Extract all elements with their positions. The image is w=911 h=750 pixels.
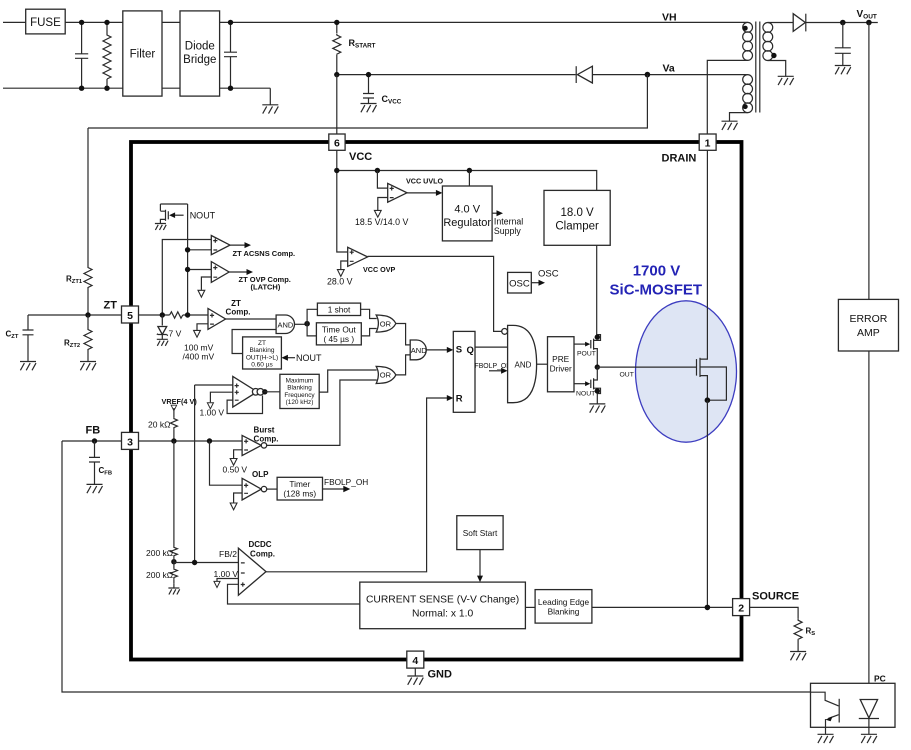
svg-text:SiC-MOSFET: SiC-MOSFET bbox=[610, 282, 703, 299]
resistor Rs bbox=[794, 619, 802, 640]
node dots AC resistor bbox=[104, 20, 109, 25]
resistor RZT2 bbox=[87, 315, 89, 327]
svg-text:1: 1 bbox=[705, 138, 711, 150]
transformer aux winding bbox=[746, 74, 747, 76]
pin 1 DRAIN bbox=[699, 134, 716, 150]
svg-text:Supply: Supply bbox=[494, 226, 521, 236]
wire Burst out to OR2 bbox=[267, 380, 377, 445]
wire body tie bbox=[700, 367, 726, 400]
svg-text:/400 mV: /400 mV bbox=[183, 352, 215, 362]
svg-text:OUT: OUT bbox=[620, 372, 634, 379]
zener 7V bbox=[161, 315, 163, 326]
wire DCDC out to latch R bbox=[266, 398, 449, 572]
wire ZT ACSNS + feed bbox=[162, 240, 211, 316]
svg-text:20 kΩ: 20 kΩ bbox=[148, 420, 170, 430]
wire OVP to AND gate bubble bbox=[368, 256, 502, 331]
svg-text:OUT(H->L): OUT(H->L) bbox=[246, 354, 278, 361]
wire ACSNS - feed bbox=[188, 249, 212, 251]
wire VCC charge line (Va to pin6) bbox=[337, 74, 747, 76]
svg-text:1.00 V: 1.00 V bbox=[214, 569, 239, 579]
block ERROR AMP bbox=[838, 299, 898, 351]
wire source down to pin2 line bbox=[706, 400, 708, 607]
internal supply arrow bbox=[492, 212, 499, 214]
svg-text:Soft Start: Soft Start bbox=[463, 528, 498, 538]
wire Va sense down-left to RZT1 bbox=[88, 75, 647, 265]
ground driver bbox=[596, 394, 598, 404]
svg-text:GND: GND bbox=[428, 669, 453, 681]
svg-text:Comp.: Comp. bbox=[250, 550, 275, 559]
gate AND1 bbox=[276, 315, 294, 334]
svg-text:2: 2 bbox=[738, 603, 744, 615]
wire bridge output top to transformer bbox=[220, 21, 747, 23]
diode output rectifier bbox=[793, 14, 805, 32]
transformer primary winding bbox=[746, 21, 747, 23]
comparator ZT ACSNS bbox=[211, 236, 230, 255]
ground aux winding bbox=[722, 121, 738, 130]
svg-text:18.0 V: 18.0 V bbox=[560, 207, 594, 219]
svg-text:PRE: PRE bbox=[552, 354, 570, 364]
svg-text:1.00 V: 1.00 V bbox=[200, 408, 225, 418]
svg-text:Normal: x 1.0: Normal: x 1.0 bbox=[412, 609, 474, 620]
optocoupler PC box bbox=[811, 683, 896, 727]
wire FB/2 to DCDC bbox=[174, 561, 239, 564]
capacitor CFB bbox=[89, 441, 100, 484]
wire bridge output bottom bbox=[220, 88, 271, 105]
wire OUT to gate bbox=[597, 366, 696, 368]
latch SR bbox=[453, 331, 475, 412]
svg-text:Driver: Driver bbox=[550, 364, 572, 374]
svg-text:ZT ACSNS Comp.: ZT ACSNS Comp. bbox=[233, 249, 296, 258]
diode aux charge (pointing left) bbox=[577, 66, 592, 83]
polarity dot secondary bbox=[771, 53, 776, 58]
svg-text:Leading Edge: Leading Edge bbox=[538, 597, 590, 607]
svg-text:NOUT: NOUT bbox=[190, 211, 216, 221]
wire VCC rail bbox=[337, 171, 597, 191]
svg-text:AND: AND bbox=[278, 321, 294, 330]
comparator VCC OVP bbox=[341, 261, 348, 269]
wire filter to bridge bbox=[162, 22, 180, 88]
wire DCDC + from current sense bbox=[228, 584, 360, 604]
gate OR2 bbox=[376, 366, 396, 383]
node Va junction bbox=[645, 72, 651, 78]
node output cap bbox=[840, 20, 846, 26]
svg-text:Filter: Filter bbox=[130, 49, 156, 61]
pin 3 FB bbox=[122, 432, 139, 449]
ground output cap bbox=[835, 66, 851, 75]
block CURRENT SENSE bbox=[360, 582, 526, 629]
resistor 200k lower bbox=[173, 558, 175, 569]
comparator VCC UVLO bbox=[377, 171, 387, 189]
gate AND2 bbox=[410, 340, 426, 360]
capacitor bulk after bridge bbox=[224, 22, 237, 88]
svg-text:ZT: ZT bbox=[104, 300, 118, 312]
svg-text:5: 5 bbox=[127, 310, 133, 322]
svg-text:VCC UVLO: VCC UVLO bbox=[406, 176, 444, 185]
wire ZT pin line left bbox=[28, 314, 122, 316]
svg-text:18.5 V/14.0 V: 18.5 V/14.0 V bbox=[355, 217, 408, 227]
wire ZT pin line right with filter squiggle bbox=[139, 314, 170, 316]
wire Q to AND3 bbox=[475, 346, 508, 348]
svg-text:Maximum: Maximum bbox=[286, 378, 314, 385]
resistor across AC line bbox=[106, 22, 108, 88]
svg-text:VREF(4 V): VREF(4 V) bbox=[162, 397, 198, 406]
wire FB line bbox=[62, 440, 242, 442]
phototransistor bbox=[811, 692, 839, 706]
wire pin6 to VCC rail bbox=[337, 150, 348, 252]
wire error amp to optocoupler LED bbox=[868, 351, 870, 700]
svg-text:ZT: ZT bbox=[258, 340, 266, 347]
svg-text:Burst: Burst bbox=[254, 426, 275, 435]
node dots AC cap bbox=[79, 20, 84, 25]
block maximum blanking frequency bbox=[280, 374, 319, 408]
svg-text:NOUT: NOUT bbox=[576, 390, 595, 397]
bubble AND3 inverted input bbox=[502, 329, 508, 335]
wire AC input top line bbox=[3, 21, 123, 23]
svg-text:1700 V: 1700 V bbox=[633, 263, 681, 280]
svg-text:OSC: OSC bbox=[509, 278, 530, 289]
svg-text:Comp.: Comp. bbox=[226, 308, 251, 317]
gate AND3 (big) bbox=[508, 325, 537, 402]
svg-text:POUT: POUT bbox=[577, 351, 596, 358]
transformer secondary winding bbox=[768, 22, 793, 24]
svg-text:AND: AND bbox=[515, 361, 532, 370]
svg-text:AND: AND bbox=[411, 346, 427, 355]
clamper 18.0V block bbox=[544, 190, 610, 245]
wire NOUT net vertical bbox=[187, 204, 189, 315]
svg-text:S: S bbox=[456, 345, 462, 356]
svg-text:Timer: Timer bbox=[289, 479, 310, 489]
svg-text:Va: Va bbox=[663, 63, 675, 75]
wire output to VOUT bbox=[806, 22, 878, 24]
svg-text:200 kΩ: 200 kΩ bbox=[146, 548, 173, 558]
transistor NOUT driver bbox=[574, 383, 587, 385]
transformer core bbox=[756, 22, 760, 113]
svg-text:Bridge: Bridge bbox=[183, 54, 216, 66]
block Time Out 45us bbox=[307, 324, 316, 336]
oscillator OSC block bbox=[508, 272, 532, 293]
fuse F1 bbox=[26, 9, 65, 34]
svg-text:OR: OR bbox=[380, 371, 392, 380]
wire VOUT sense down to error amp bbox=[868, 23, 870, 300]
signal NOUT into blanking bbox=[287, 357, 295, 359]
ground secondary bbox=[778, 76, 794, 85]
svg-text:OSC: OSC bbox=[538, 269, 559, 280]
wire AC input bottom line bbox=[3, 87, 123, 89]
wire FB/2 net vertical bbox=[194, 385, 196, 563]
node VOUT bbox=[866, 20, 872, 26]
wire AND1 out node bbox=[295, 323, 308, 325]
resistor 20k bbox=[173, 408, 175, 418]
svg-text:Comp.: Comp. bbox=[254, 435, 279, 444]
ground bridge output bbox=[262, 105, 278, 114]
svg-text:(LATCH): (LATCH) bbox=[251, 283, 281, 292]
svg-text:200 kΩ: 200 kΩ bbox=[146, 570, 173, 580]
svg-text:PC: PC bbox=[874, 674, 886, 684]
filter block bbox=[123, 11, 162, 96]
wire FB outer loop to optocoupler bbox=[62, 441, 811, 692]
svg-text:0.50 V: 0.50 V bbox=[223, 465, 248, 475]
comparator OCP (pulse-by-pulse) bbox=[195, 384, 233, 386]
block Soft Start bbox=[457, 516, 503, 550]
node OUT bbox=[595, 364, 600, 369]
capacitor output bbox=[835, 23, 851, 66]
pin 6 VCC bbox=[329, 134, 345, 150]
diode bridge block bbox=[180, 11, 220, 96]
ground CVCC bbox=[361, 104, 377, 113]
wire OR1 to AND2 bbox=[396, 324, 410, 345]
signal FBOLP_OH out bbox=[323, 488, 346, 490]
svg-text:OR: OR bbox=[380, 319, 392, 328]
transistor SiC MOSFET bbox=[696, 359, 698, 376]
capacitor CZT bbox=[23, 315, 34, 362]
svg-text:Diode: Diode bbox=[185, 41, 215, 53]
capacitor CVCC bbox=[363, 75, 374, 104]
svg-text:CURRENT SENSE (V-V Change): CURRENT SENSE (V-V Change) bbox=[366, 595, 519, 606]
svg-text:( 45 µs ): ( 45 µs ) bbox=[323, 334, 354, 344]
ground divider bbox=[173, 583, 175, 588]
comparator ZT OVP bbox=[201, 277, 211, 290]
wire MBF to OR2 bbox=[319, 370, 377, 392]
svg-text:Blanking: Blanking bbox=[250, 347, 275, 354]
wire pin4 to ground bbox=[414, 668, 416, 676]
svg-text:28.0 V: 28.0 V bbox=[327, 277, 353, 287]
ellipse SiC-MOSFET bbox=[636, 301, 737, 442]
capacitor across AC line bbox=[75, 22, 88, 88]
svg-text:Clamper: Clamper bbox=[555, 221, 599, 233]
svg-text:6: 6 bbox=[334, 138, 340, 150]
svg-text:DCDC: DCDC bbox=[248, 540, 271, 549]
wire OR2 to AND2 bbox=[396, 355, 410, 375]
polarity dot aux bbox=[743, 104, 748, 109]
wire OVP + feed bbox=[188, 269, 212, 271]
svg-text:FBOLP_OH: FBOLP_OH bbox=[324, 477, 368, 487]
svg-text:DRAIN: DRAIN bbox=[662, 153, 697, 165]
svg-text:Q: Q bbox=[467, 345, 474, 356]
resistor RZT1 bbox=[84, 265, 92, 289]
svg-text:VH: VH bbox=[662, 12, 677, 24]
svg-text:VCC: VCC bbox=[349, 151, 372, 163]
IC outline thick border bbox=[131, 142, 742, 660]
wire LEB to pin2 bbox=[592, 606, 733, 608]
driver PRE block bbox=[548, 337, 575, 392]
svg-text:ERROR: ERROR bbox=[849, 313, 887, 325]
svg-text:VCC OVP: VCC OVP bbox=[363, 265, 396, 274]
svg-text:FBOLP_OH: FBOLP_OH bbox=[475, 363, 512, 370]
transistor POUT bbox=[574, 343, 587, 345]
regulator 4.0V block bbox=[468, 171, 470, 187]
svg-text:4.0 V: 4.0 V bbox=[454, 204, 480, 216]
wire ZT blanking to AND1 lower input bbox=[232, 330, 276, 354]
svg-text:0.60 µs: 0.60 µs bbox=[251, 362, 273, 369]
polarity dot primary bbox=[743, 26, 748, 31]
block Timer 128ms bbox=[277, 477, 322, 500]
wire drain from pin1 bbox=[700, 150, 707, 359]
svg-text:1 shot: 1 shot bbox=[328, 305, 351, 315]
gate OR1 bbox=[376, 315, 396, 332]
svg-text:NOUT: NOUT bbox=[296, 353, 322, 363]
svg-text:Frequency: Frequency bbox=[284, 392, 315, 399]
wire clamper to POUT rail bbox=[596, 245, 598, 337]
pin 2 SOURCE bbox=[733, 599, 750, 616]
block 1 shot bbox=[307, 309, 317, 323]
svg-text:(120 kHz): (120 kHz) bbox=[286, 399, 314, 406]
pin 4 GND bbox=[407, 651, 424, 668]
svg-text:SOURCE: SOURCE bbox=[752, 591, 799, 603]
block Leading Edge Blanking bbox=[525, 606, 535, 608]
svg-text:FB/2: FB/2 bbox=[219, 549, 237, 559]
wire AND2 to S bbox=[426, 349, 449, 351]
resistor 200k upper bbox=[173, 441, 175, 547]
svg-text:Blanking: Blanking bbox=[548, 607, 580, 617]
svg-text:Regulator: Regulator bbox=[443, 217, 491, 229]
wire pin2 to Rs bbox=[750, 607, 799, 618]
svg-text:R: R bbox=[456, 394, 463, 405]
resistor RSTART bbox=[336, 22, 338, 74]
blanking ZT box bbox=[243, 337, 282, 369]
svg-text:3: 3 bbox=[127, 436, 133, 448]
LED optocoupler bbox=[860, 700, 877, 718]
svg-text:OLP: OLP bbox=[252, 470, 269, 479]
svg-text:(128 ms): (128 ms) bbox=[283, 489, 316, 499]
transistor NOUT sense (small) bbox=[160, 204, 187, 211]
wire ZT comp out to AND1 bbox=[226, 318, 277, 320]
svg-text:FUSE: FUSE bbox=[30, 17, 61, 29]
svg-text:AMP: AMP bbox=[857, 327, 880, 339]
wire AND3 to PRE driver bbox=[537, 363, 548, 365]
wire source bbox=[700, 376, 707, 401]
pin 5 ZT bbox=[122, 306, 139, 323]
svg-text:FB: FB bbox=[86, 425, 101, 437]
svg-text:Internal: Internal bbox=[494, 217, 523, 227]
svg-text:Time Out: Time Out bbox=[322, 324, 357, 334]
svg-text:7 V: 7 V bbox=[169, 329, 182, 339]
svg-text:4: 4 bbox=[412, 655, 418, 667]
wire pin6 stem bbox=[336, 75, 338, 134]
svg-text:Blanking: Blanking bbox=[287, 385, 312, 392]
